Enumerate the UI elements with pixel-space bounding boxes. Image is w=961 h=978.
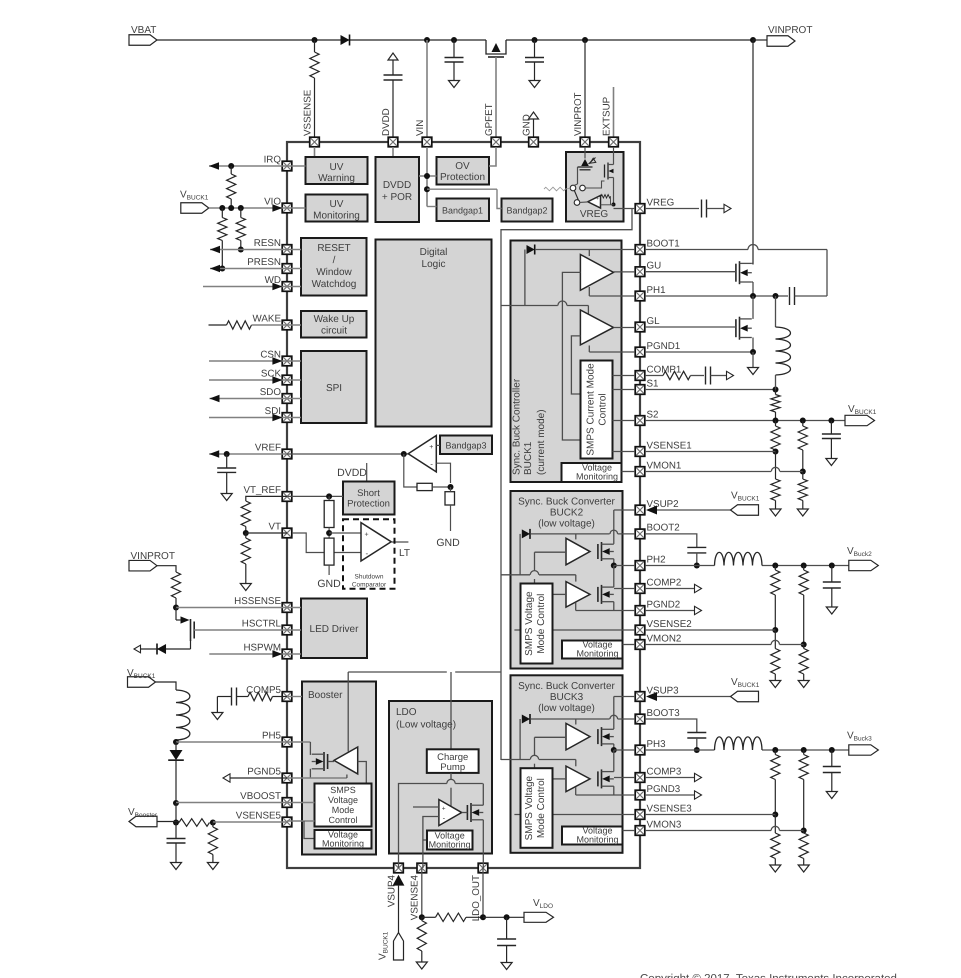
wire COMP5 net [273, 696, 288, 698]
svg-text:Bandgap2: Bandgap2 [506, 206, 547, 216]
svg-text:PGND5: PGND5 [247, 767, 281, 778]
wire BUCK2 HS input [535, 552, 567, 583]
capacitor C-VBAT2 [525, 40, 544, 88]
wire GL internal [614, 327, 636, 329]
wire SDO [210, 395, 288, 403]
wire BUCK3 LS input [553, 778, 567, 780]
block LED Driver [301, 599, 367, 659]
pin VIN [415, 120, 432, 147]
VBUCK1 flag at booster [127, 668, 156, 687]
wire S2 ext [645, 418, 845, 424]
svg-text:VBOOST: VBOOST [240, 791, 281, 802]
wire HSPWM stub [287, 653, 301, 655]
pin GL [635, 316, 660, 332]
pin PGND1 [635, 341, 680, 357]
capacitor C-boost [167, 823, 186, 870]
svg-text:GPFET: GPFET [484, 103, 495, 136]
wire GL ext [645, 326, 736, 328]
wire WAKE + resistor [209, 321, 288, 329]
wire booster amp input [358, 762, 367, 784]
arrow VSUP3 [646, 692, 731, 701]
svg-text:Booster: Booster [308, 690, 343, 701]
wire BOOT2 ext [645, 534, 697, 548]
wire VSENSE3 internal [514, 814, 635, 816]
wire charge pump feed [450, 672, 452, 749]
transistor Q-LS2 [598, 585, 614, 604]
capacitor C-BOOT1 [776, 287, 828, 305]
wire Q-HS2 source [611, 559, 617, 569]
wire RESN stub [287, 249, 301, 251]
svg-text:LDO: LDO [396, 707, 417, 718]
wire PRESN [210, 265, 287, 273]
resistor R-fb box [417, 483, 454, 490]
svg-text:HSSENSE: HSSENSE [234, 596, 281, 607]
svg-text:VT: VT [268, 522, 281, 533]
wire GU internal [614, 271, 636, 273]
pin EXTSUP [601, 96, 618, 146]
box Charge Pump [427, 749, 479, 773]
wire PH5 internal [287, 742, 310, 755]
wire COMP2 internal [614, 588, 635, 590]
wire HSSENSE stub [287, 607, 301, 609]
wire VINPROT into VREG [584, 147, 586, 159]
diode D-BOOT2 [522, 529, 530, 539]
wire LDO_OUT node [483, 914, 524, 920]
svg-text:Window: Window [316, 267, 352, 278]
inductor L-boost [176, 690, 190, 742]
svg-text:BOOT2: BOOT2 [647, 523, 680, 534]
label DVDD [337, 463, 367, 482]
VBUCK1 vertical flag [378, 931, 404, 960]
svg-text:DVDD: DVDD [381, 108, 392, 136]
svg-text:BUCK1: BUCK1 [523, 441, 534, 475]
resistor R-VSENSE2b [770, 630, 781, 688]
pin IRQ [264, 155, 292, 171]
wire VSENSE4 down [419, 868, 425, 920]
IC boundary [287, 142, 640, 868]
svg-text:VSENSE3: VSENSE3 [647, 803, 693, 814]
resistor R-VSENSE2a [771, 566, 780, 634]
wire VREF ext [209, 450, 287, 458]
VLDO output flag [524, 898, 554, 922]
wire DVDD to POR [392, 147, 394, 157]
wire HSSENSE [176, 607, 287, 609]
svg-text:Shutdown: Shutdown [355, 574, 384, 581]
resistor R-COMP5 [248, 692, 273, 700]
wire BUCK3 LS supply [575, 760, 577, 767]
wire BOOT3 internal [530, 715, 635, 724]
wire RESN [210, 246, 287, 254]
ground arrow above GND pin [529, 112, 539, 137]
pin VMON2 [635, 633, 681, 649]
svg-text:-: - [365, 549, 368, 558]
box BUCK2 SMPS Voltage Mode Control [521, 584, 553, 664]
capacitor C-VIN [445, 40, 464, 88]
svg-text:Monitoring: Monitoring [576, 649, 618, 659]
svg-text:Copyright © 2017, Texas Instru: Copyright © 2017, Texas Instruments Inco… [640, 973, 897, 978]
wire PH3 internal [614, 749, 635, 751]
pin LDO_OUT [471, 863, 488, 921]
wire VSUP3 internal [614, 697, 635, 730]
VBAT input flag [129, 25, 157, 45]
wire VREG supply rail [501, 209, 632, 761]
pin VREF [255, 443, 292, 459]
capacitor C-VREG [702, 200, 725, 218]
svg-text:DVDD: DVDD [337, 467, 367, 479]
capacitor C-LDO [497, 917, 516, 969]
wire VREG line [645, 208, 699, 210]
wire VREF internal [287, 451, 408, 457]
capacitor C-BUCK3out [823, 750, 841, 799]
pin VMON1 [635, 460, 681, 476]
resistor R-VSSENSE [310, 40, 319, 137]
wire VSENSE5 [213, 821, 287, 823]
wire PH1 ext [645, 293, 779, 299]
wire to L-boost [156, 682, 177, 690]
VINPROT output flag [767, 25, 812, 46]
resistor R-IRQ pullup [227, 166, 236, 208]
pin SDO [260, 387, 292, 403]
pin COMP3 [635, 766, 682, 782]
node VINPROT-tap [582, 37, 588, 43]
wire VSSENSE to UV Warning [314, 147, 316, 157]
svg-text:Watchdog: Watchdog [312, 279, 357, 290]
svg-text:VINPROT: VINPROT [768, 25, 812, 36]
wire BUCK2 LS supply [575, 575, 577, 582]
svg-text:VINPROT: VINPROT [573, 92, 584, 136]
wire Q-HS1 source [752, 263, 753, 296]
wire PH1 internal [589, 287, 635, 296]
capacitor C-BOOT2 [687, 547, 706, 568]
svg-text:SDO: SDO [260, 387, 282, 398]
svg-text:(Low voltage): (Low voltage) [396, 720, 456, 731]
node C2-tap [532, 37, 538, 43]
wire PGND2 ext [645, 606, 702, 614]
wire COMP3 internal [614, 777, 635, 779]
svg-text:VBAT: VBAT [131, 25, 156, 36]
diode D-BOOT1 [527, 245, 535, 255]
transistor Q-HS1 NMOS [736, 261, 752, 284]
svg-text:UV: UV [330, 199, 344, 210]
block BUCK2 [511, 491, 623, 669]
svg-text:WAKE: WAKE [253, 314, 282, 325]
wire BUCK3 supply [501, 741, 576, 760]
svg-text:PH3: PH3 [647, 739, 667, 750]
box Shutdown Comparator dashed [343, 519, 395, 589]
pin PGND3 [635, 784, 681, 800]
wire VMON1 internal [622, 471, 636, 473]
node VBAT-right [750, 37, 756, 43]
wire VSENSE3 ext [645, 814, 775, 816]
svg-text:SMPS Current Mode: SMPS Current Mode [586, 363, 597, 456]
wire VSENSE5 internal [287, 821, 315, 839]
wire VBOOST [176, 802, 287, 804]
svg-text:VSSENSE: VSSENSE [302, 89, 313, 136]
wire VSENSE2 internal [514, 629, 635, 631]
wire LDO plus input [413, 806, 439, 808]
pin COMP5 [246, 685, 292, 701]
wire VMON2 internal [623, 644, 636, 646]
box BUCK3 SMPS Voltage Mode Control [521, 768, 553, 848]
transistor Q-HS PMOS [176, 608, 194, 650]
wire VT ext [246, 532, 287, 534]
op-amp BUCK2 HS driver [566, 538, 590, 565]
wire Q-LDO drain [482, 784, 484, 806]
svg-text:Monitoring: Monitoring [429, 840, 471, 850]
svg-text:+: + [364, 532, 368, 539]
pin GND [521, 114, 538, 147]
op-amp LDO error amp [439, 800, 462, 826]
wire LDO_OUT down [480, 868, 486, 920]
wire COMP1 internal [613, 375, 636, 377]
node PH5 [173, 739, 179, 745]
wire R-VT2 to GND [317, 565, 341, 590]
svg-text:+ POR: + POR [382, 192, 412, 203]
pin HSCTRL [242, 619, 292, 635]
svg-text:Pump: Pump [440, 762, 465, 773]
transistor GPFET pass [486, 40, 506, 137]
pin S1 [635, 378, 658, 394]
wire BOOT1 ext [645, 245, 827, 297]
pin WAKE [253, 314, 292, 330]
node VBOOST [173, 800, 179, 806]
wire VBOOST to out [173, 803, 179, 826]
pin GPFET [484, 103, 501, 146]
wire S1 internal [613, 389, 636, 391]
wire Q-LS1 source [752, 338, 754, 353]
resistor R-VT-lower [240, 533, 251, 591]
wire VSUP2 internal [614, 510, 635, 544]
svg-text:RESN: RESN [254, 238, 281, 249]
VBUCK1 flag VSUP3 [731, 677, 760, 702]
wire HSPWM [209, 650, 287, 658]
svg-text:Monitoring: Monitoring [576, 835, 618, 845]
svg-text:SMPS Voltage: SMPS Voltage [524, 775, 535, 840]
svg-text:DVDD: DVDD [383, 180, 411, 191]
wire SDO stub [287, 398, 301, 400]
wire to GND [436, 505, 460, 549]
pin COMP1 [635, 364, 681, 380]
wire WAKE stub [287, 324, 301, 326]
wire S2 internal [613, 420, 636, 422]
box booster Voltage Monitoring [315, 830, 372, 849]
wire CSN stub [287, 360, 301, 362]
pin DVDD [381, 108, 398, 147]
svg-text:SMPS: SMPS [330, 785, 356, 795]
wire BUCK2 boot riser [519, 534, 521, 575]
svg-text:HSCTRL: HSCTRL [242, 619, 282, 630]
svg-text:PGND3: PGND3 [647, 784, 681, 795]
pin VREG [635, 197, 674, 213]
pin VSENSE3 [635, 803, 692, 819]
svg-text:SCK: SCK [261, 369, 282, 380]
wire VMON1 ext [645, 467, 803, 471]
pin PH1 [635, 285, 665, 301]
pin VMON3 [635, 819, 682, 835]
wire PMOS to contact1 [574, 184, 578, 186]
box BUCK1 Voltage Monitoring [562, 463, 622, 483]
svg-text:Bandgap1: Bandgap1 [442, 206, 483, 216]
wire Q-HS1 drain [752, 40, 753, 263]
wire PGND2 internal [576, 603, 635, 611]
svg-text:Mode Control: Mode Control [536, 594, 547, 654]
wire VMON3 ext [645, 826, 804, 830]
svg-text:Short: Short [357, 488, 380, 499]
pin VSENSE4 [410, 863, 427, 920]
resistor R-VSENSE4 gnd [416, 917, 427, 969]
capacitor C-COMP5 [217, 688, 248, 706]
svg-text:SMPS Voltage: SMPS Voltage [524, 591, 535, 656]
resistor R-VSENSE3a [771, 750, 780, 818]
pin VSENSE5 [236, 811, 292, 827]
diode D-BOOT3 [522, 714, 530, 724]
wire BUCK1 HS input [562, 272, 580, 440]
svg-text:Monitoring: Monitoring [313, 211, 360, 222]
pin SCK [261, 369, 292, 385]
resistor R-VSENSE1b [770, 452, 781, 517]
wire SDI stub [287, 417, 301, 419]
op-amp BUCK1 LS driver [580, 310, 613, 345]
diode D-VBAT [341, 35, 350, 46]
svg-text:VSENSE2: VSENSE2 [647, 619, 692, 630]
capacitor C-BUCK2out [823, 566, 841, 615]
wire WD [203, 283, 287, 291]
wire BUCK1 boot riser [524, 250, 526, 306]
resistor R-VSENSE3b [770, 815, 781, 873]
pin VSUP4 [386, 863, 403, 907]
wire EXTSUP into VREG [613, 147, 615, 162]
svg-text:S1: S1 [647, 378, 659, 389]
svg-text:Comparator: Comparator [352, 581, 387, 588]
resistor R-RESN pullup [236, 208, 245, 253]
svg-text:Warning: Warning [318, 173, 355, 184]
pin RESN [254, 238, 292, 254]
wire to VINPROT flag [753, 39, 767, 41]
resistor R-VMON3b [798, 831, 809, 873]
copyright text [640, 973, 897, 978]
wire VSENSE1 internal [613, 451, 636, 453]
diode D-boost [168, 742, 184, 803]
svg-text:-: - [597, 204, 599, 210]
svg-text:BUCK3: BUCK3 [550, 692, 584, 703]
resistor R-VT-upper [241, 501, 250, 536]
svg-text:Monitoring: Monitoring [322, 839, 364, 849]
wire BUCK1 supply branch [501, 301, 588, 314]
wire COMP2 ext [645, 584, 702, 592]
VBooster output flag [128, 807, 158, 827]
switch contact 3 [574, 200, 580, 206]
svg-text:/: / [333, 255, 336, 266]
wire BOOT3 ext [645, 719, 697, 733]
wire booster supply [347, 672, 349, 752]
resistor R-VT1 box [324, 496, 334, 538]
block Bandgap3 [436, 436, 492, 455]
wire PGND1 internal [589, 346, 635, 353]
pin VINPROT [573, 92, 590, 146]
svg-text:Sync. Buck Converter: Sync. Buck Converter [518, 681, 615, 692]
pin WD [265, 275, 292, 291]
resistor R-PRESN pullup [218, 208, 227, 272]
resistor R-gnd box [445, 487, 455, 505]
arrow VREG out [724, 204, 731, 212]
transistor Q-LS3 [598, 769, 614, 788]
block DVDD + POR [376, 157, 420, 222]
svg-text:OV: OV [455, 161, 470, 172]
box LDO Voltage Monitoring [427, 831, 473, 850]
wire contact2 to NMOS gate [585, 181, 604, 188]
wire VIO stub [287, 207, 306, 209]
block UV Monitoring [306, 195, 368, 222]
arrow VSUP2 [646, 506, 731, 515]
wire Q-LS1 drain [752, 296, 754, 319]
wire BUCK2 supply [501, 555, 576, 574]
svg-text:GND: GND [521, 114, 532, 136]
svg-text:Control: Control [328, 815, 357, 825]
wire VMON2 ext [645, 640, 804, 644]
arrow COMP1 [727, 371, 734, 379]
pin PH3 [635, 739, 666, 755]
svg-text:VT_REF: VT_REF [243, 485, 281, 496]
wire COMP3 ext [645, 773, 702, 781]
wire PRESN stub [287, 268, 301, 270]
svg-text:GU: GU [647, 261, 662, 272]
svg-text:LED Driver: LED Driver [310, 624, 360, 635]
svg-text:Sync. Buck Converter: Sync. Buck Converter [518, 497, 615, 508]
svg-text:BOOT3: BOOT3 [647, 708, 681, 719]
wire PGND3 internal [576, 787, 635, 795]
svg-text:PH1: PH1 [647, 285, 666, 296]
wire VSENSE1 ext [645, 451, 776, 453]
node VSSENSE-tap [312, 37, 318, 43]
svg-text:VSUP4: VSUP4 [386, 874, 397, 907]
pin CSN [260, 350, 291, 366]
pin VT_REF [243, 485, 291, 501]
wire LDO minus input [423, 817, 439, 869]
op-amp BUCK3 LS driver [566, 766, 590, 792]
wire VT_REF ext [246, 496, 287, 501]
capacitor C-COMP1 [691, 367, 727, 385]
wire Q-LS3 drain [613, 750, 615, 772]
svg-text:PH5: PH5 [262, 731, 282, 742]
wire charge pump to amp [450, 773, 452, 806]
resistor R-VMON1b [797, 472, 808, 517]
block UV Warning [306, 157, 368, 184]
wire SCK [209, 376, 287, 384]
svg-text:(low voltage): (low voltage) [538, 703, 595, 714]
svg-text:Protection: Protection [440, 172, 485, 183]
block Wake Up circuit [301, 311, 367, 338]
svg-text:Bandgap3: Bandgap3 [445, 441, 486, 451]
block BUCK1 [511, 241, 622, 483]
resistor R-VSENSE1a [771, 421, 780, 455]
svg-text:EXTSUP: EXTSUP [601, 96, 612, 136]
wire to LDO voltage monitoring [423, 839, 427, 841]
pin BOOT2 [635, 523, 680, 539]
svg-text:VSENSE1: VSENSE1 [647, 440, 692, 451]
wire VIN internal [419, 147, 502, 209]
wire VMON3 internal [623, 830, 636, 832]
wire VIO [209, 204, 287, 212]
pin VSENSE1 [635, 440, 692, 456]
wire CSN [209, 357, 287, 365]
wire Q-LS2 drain [613, 566, 615, 588]
VBuck2 output flag [847, 546, 878, 571]
wire Q-LS3 source [613, 786, 615, 795]
wire VT jog [292, 533, 361, 553]
wire BUCK3 boot riser [519, 719, 521, 760]
box booster SMPS Voltage Mode Control [315, 784, 372, 827]
transistor Q-LS1 NMOS [736, 317, 752, 340]
